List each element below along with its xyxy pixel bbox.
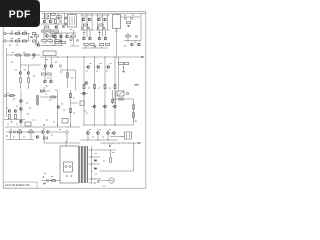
node (91, 164, 92, 165)
value label (23, 137, 25, 138)
wire (20, 82, 22, 88)
wire (41, 90, 51, 92)
capacitor C3 (60, 35, 61, 38)
wire (41, 56, 145, 58)
resistor R17 (15, 40, 19, 42)
value label (51, 135, 53, 136)
value label (57, 33, 60, 34)
wire (96, 29, 110, 31)
wire (54, 38, 56, 46)
transistor Q24 (50, 65, 53, 68)
resistor R13 (99, 24, 103, 26)
value label (73, 113, 75, 114)
wire (83, 57, 85, 125)
wire (60, 38, 62, 46)
value label (10, 129, 12, 130)
resistor R9 (42, 40, 46, 42)
resistor R59 (43, 137, 47, 139)
wire (107, 14, 109, 30)
value label (26, 103, 29, 104)
ground (94, 46, 97, 47)
transistor Q13 (54, 35, 57, 38)
wire (66, 33, 68, 35)
wire (44, 75, 46, 80)
value label (24, 70, 27, 71)
wire (96, 14, 110, 16)
wire (110, 136, 124, 138)
wire (89, 182, 97, 184)
wire (84, 124, 133, 126)
transistor Q20 (33, 54, 36, 57)
wire (118, 143, 120, 144)
wire (110, 150, 112, 157)
node (95, 179, 96, 180)
resistor R10 (48, 40, 52, 42)
transistor Q11 (138, 43, 141, 46)
value label (50, 43, 53, 44)
wire (105, 30, 107, 37)
wire (81, 14, 95, 16)
value label (103, 161, 105, 162)
value label (98, 32, 101, 33)
capacitor C11 (125, 17, 126, 20)
ground (122, 71, 125, 72)
resistor R30 (105, 44, 109, 46)
value label (99, 17, 102, 18)
wire (6, 40, 30, 42)
wire (123, 65, 125, 71)
wire (102, 106, 103, 108)
wire (58, 13, 60, 20)
transistor Q8 (98, 18, 101, 21)
transistor Q17 (89, 37, 92, 40)
transistor Q10 (131, 43, 134, 46)
wire (51, 57, 53, 65)
capacitor C15 (11, 40, 12, 43)
resistor R32 (25, 54, 29, 56)
transistor Q29 (107, 66, 110, 69)
node (57, 125, 58, 126)
value label (70, 29, 73, 30)
wire (41, 126, 81, 128)
wire (92, 106, 93, 108)
wire (20, 75, 22, 78)
resistor R15 (126, 35, 130, 37)
wire (54, 33, 56, 35)
IC U1 pins (70, 17, 75, 26)
resistor R3 (57, 16, 61, 18)
transistor Q6 (82, 18, 85, 21)
node (71, 175, 73, 177)
net label +V (135, 84, 139, 86)
wire (104, 57, 106, 125)
wire (6, 33, 30, 35)
node (46, 85, 48, 87)
node (47, 45, 48, 46)
wire (82, 47, 108, 49)
wire (42, 18, 62, 20)
value label (73, 98, 75, 99)
wire (66, 134, 68, 143)
IC U5 (80, 101, 84, 105)
wire (60, 69, 76, 71)
wire (89, 156, 101, 158)
wire (7, 95, 16, 97)
wire (100, 142, 139, 144)
capacitor C22 (97, 181, 100, 182)
diode D2 (95, 168, 97, 170)
value label (46, 59, 49, 60)
wire (87, 130, 89, 132)
transistor Q27 (87, 66, 90, 69)
wire (70, 90, 72, 127)
wire (112, 98, 134, 100)
transformer T1 enclosure (60, 146, 79, 183)
value label (18, 31, 21, 32)
transistor Q44 (87, 132, 90, 135)
wire (75, 70, 77, 90)
value label (83, 32, 86, 33)
capacitor C21 (14, 131, 15, 134)
wire (102, 14, 104, 30)
wire (81, 14, 83, 30)
wire (6, 139, 34, 141)
wire (108, 143, 110, 144)
resistor R34 (28, 78, 30, 82)
wire (41, 96, 58, 98)
wire (86, 14, 88, 30)
node (94, 57, 95, 58)
node (108, 140, 109, 141)
transistor Q43 (47, 131, 50, 134)
bridge rectifier BR1 (117, 91, 124, 96)
transistor Q18 (98, 37, 101, 40)
transistor Q34 (14, 110, 17, 113)
value label (7, 93, 9, 94)
value label (99, 129, 101, 130)
value label (109, 129, 111, 130)
wire (7, 54, 41, 56)
value label (46, 120, 48, 121)
wire (133, 99, 135, 125)
value label (29, 108, 32, 109)
node (91, 171, 92, 172)
wire (115, 90, 117, 104)
value label (90, 63, 92, 64)
wire (73, 37, 75, 46)
resistor R53 (119, 98, 123, 100)
resistor R24 (55, 42, 59, 44)
svg-text:PDF: PDF (9, 10, 31, 21)
value label (23, 52, 26, 53)
value label (100, 63, 102, 64)
resistor R42 (119, 63, 123, 65)
wire (6, 48, 8, 117)
wire (103, 143, 105, 144)
transformer T1 windings (80, 146, 88, 183)
transistor Q31 (20, 100, 23, 103)
wire (28, 82, 30, 88)
resistor R55 (133, 113, 135, 117)
bridge rectifier BR2 pins (127, 134, 130, 138)
wire (133, 143, 135, 144)
connector J1 (4, 32, 6, 34)
fuse F1 (65, 165, 67, 167)
wire (97, 14, 99, 30)
wire (41, 45, 63, 47)
wire (60, 33, 62, 35)
value label (45, 33, 48, 34)
value label (59, 129, 61, 130)
wire (20, 90, 22, 126)
value label (27, 114, 30, 115)
value label (43, 88, 45, 89)
wire (44, 142, 80, 144)
value label (32, 58, 35, 59)
transistor Q7 (88, 18, 91, 21)
wire (36, 34, 38, 35)
value label (92, 137, 94, 138)
wire (121, 16, 141, 18)
transistor Q14 (60, 35, 63, 38)
wire (67, 57, 69, 88)
wire (70, 45, 79, 47)
wire (94, 57, 96, 125)
lamp DS1 (66, 131, 69, 134)
wire (110, 143, 114, 147)
resistor R23 (72, 35, 76, 37)
transistor Q4 (46, 35, 49, 38)
value label (88, 88, 90, 89)
wire (109, 145, 111, 147)
resistor R60 (110, 158, 112, 162)
value label (13, 137, 15, 138)
value label (95, 174, 97, 175)
node (84, 125, 85, 126)
node (11, 121, 13, 123)
resistor R35 (41, 73, 45, 75)
IC U4 (62, 119, 68, 124)
wire (96, 66, 97, 68)
resistor R44 (9, 95, 13, 97)
resistor R6 (42, 30, 46, 32)
wire (85, 46, 87, 48)
resistor R47 (37, 96, 39, 99)
node (53, 45, 54, 46)
node (98, 140, 99, 141)
node (105, 125, 106, 126)
node (115, 57, 116, 58)
bridge rectifier BR2 (125, 132, 132, 139)
value label (44, 173, 46, 174)
resistor R54 (133, 105, 135, 109)
wire (114, 57, 116, 125)
wire (112, 90, 114, 104)
ground (127, 26, 130, 27)
value label (12, 52, 15, 53)
resistor R39 (94, 84, 96, 88)
IC U3 (25, 122, 31, 126)
value label (52, 19, 54, 20)
wire (124, 40, 141, 42)
wire (52, 32, 76, 34)
wire (36, 37, 38, 42)
capacitor C12 (131, 17, 132, 20)
wire (28, 75, 30, 78)
resistor R20 (32, 33, 35, 35)
transistor Q23 (44, 65, 47, 68)
resistor R45 (9, 114, 11, 118)
resistor R11 (55, 40, 59, 42)
wire (128, 143, 130, 144)
value label (132, 15, 135, 16)
value label (47, 78, 50, 79)
node (6, 135, 8, 137)
transistor Q19 (104, 37, 107, 40)
value label (106, 71, 108, 72)
wire (106, 66, 107, 68)
value label (11, 31, 14, 32)
capacitor C7 (82, 27, 83, 30)
value label (84, 17, 87, 18)
value label (42, 24, 44, 25)
value label (134, 42, 137, 43)
value label (63, 110, 65, 111)
node (64, 18, 65, 19)
resistor R52 (70, 108, 72, 112)
resistor R50 (51, 96, 55, 98)
capacitor C4 (60, 40, 61, 43)
wire (102, 30, 104, 37)
wire (37, 95, 39, 106)
wire (21, 64, 41, 66)
wire (118, 57, 120, 90)
value label (55, 90, 57, 91)
resistor R61 (52, 180, 56, 182)
resistor R56 (112, 99, 114, 102)
wire (38, 41, 40, 43)
transistor Q25 (44, 80, 47, 83)
value label (19, 129, 21, 130)
wire (100, 170, 134, 172)
wire (107, 130, 109, 132)
transistor Q45 (97, 132, 100, 135)
wire (89, 163, 101, 165)
capacitor C8 (87, 27, 90, 28)
resistor R58 (29, 131, 33, 133)
resistor R29 (99, 44, 103, 46)
resistor R25 (61, 42, 65, 44)
wire (49, 29, 51, 40)
value label (11, 38, 14, 39)
resistor R48 (37, 101, 39, 104)
transistor Q5 (52, 35, 55, 38)
transistor Q2 (49, 20, 52, 23)
wire (113, 143, 115, 144)
resistor R7 (48, 30, 52, 32)
capacitor C16 (30, 36, 33, 37)
wire (55, 32, 57, 39)
capacitor C17 (36, 43, 37, 46)
transistor Q22 (27, 72, 30, 75)
resistor R46 (15, 114, 17, 118)
transistor Q3 (55, 26, 58, 29)
resistor R21 (32, 40, 35, 42)
transistor Q37 (83, 92, 86, 95)
node (84, 57, 85, 58)
resistor R2 (51, 14, 55, 16)
wire (50, 13, 52, 20)
value label (18, 38, 21, 39)
value label (102, 137, 104, 138)
value label (86, 71, 88, 72)
fuse F2 (69, 165, 71, 167)
transistor Q40 (114, 105, 117, 108)
value label (51, 33, 54, 34)
resistor R18 (22, 33, 26, 35)
resistor R51 (70, 93, 72, 97)
resistor R16 (15, 33, 19, 35)
wire (45, 68, 47, 74)
node (88, 140, 89, 141)
node (115, 125, 116, 126)
fuse holder F1 (64, 162, 73, 172)
wire (97, 135, 99, 140)
transistor Q33 (8, 110, 11, 113)
wire (28, 65, 30, 71)
wire (112, 106, 113, 108)
value label (6, 108, 8, 109)
wire (42, 12, 146, 14)
value label (33, 120, 36, 121)
transistor Q38 (93, 105, 96, 108)
value label (95, 153, 97, 154)
wire (73, 30, 75, 35)
capacitor C5 (65, 17, 66, 20)
IC U2 (43, 51, 56, 56)
wire (138, 142, 141, 144)
node (67, 57, 68, 58)
capacitor C18 (77, 39, 78, 42)
connector J2 (4, 40, 6, 42)
wire (133, 143, 135, 171)
title block (3, 182, 37, 188)
lamp DS2 (109, 178, 114, 183)
transistor Q16 (83, 37, 86, 40)
wire (65, 141, 67, 147)
wire (45, 57, 47, 65)
resistor R8 (54, 30, 58, 32)
value label (51, 176, 53, 177)
transistor Q30 (85, 82, 88, 85)
connector J3 (4, 94, 6, 96)
capacitor C2 (62, 25, 63, 28)
resistor R5 (44, 26, 48, 28)
resistor R12 (83, 24, 87, 26)
wire (71, 102, 79, 104)
value label (46, 19, 48, 20)
node (28, 88, 29, 89)
node (91, 150, 92, 151)
wire (123, 143, 125, 144)
wire (87, 135, 89, 140)
value label (33, 76, 36, 77)
resistor R36 (47, 73, 51, 75)
capacitor C1 (60, 20, 61, 23)
node (50, 180, 51, 181)
node (57, 57, 58, 58)
resistor R40 (104, 84, 106, 88)
